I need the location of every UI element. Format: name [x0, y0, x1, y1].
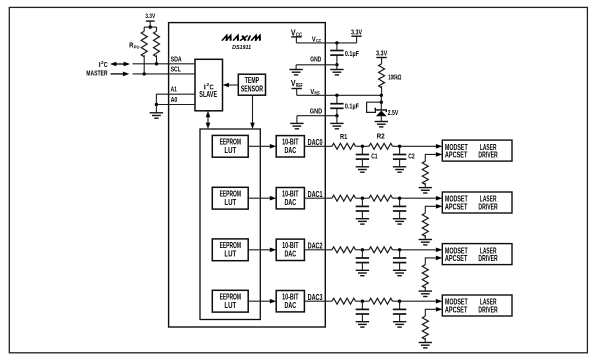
junction C1 node row 4 [361, 300, 364, 303]
capacitor C2 row 4 [399, 301, 401, 309]
wire VCC cap to ground node [336, 55, 338, 65]
wire SDA [133, 63, 196, 65]
LASER DRIVER block 4 [442, 295, 512, 316]
svg-text:DAC: DAC [284, 198, 296, 207]
wire C1 to ground row 3 [361, 263, 363, 271]
wire VCC pin [296, 42, 356, 44]
LASER DRIVER block 2 [442, 192, 512, 213]
wire A1 [156, 94, 195, 104]
wire RPU left to SCL [143, 55, 145, 74]
resistor R1 row 3 [332, 247, 356, 253]
ground under C1 row 2 [356, 219, 369, 224]
wire TEMP SENSOR to I2C SLAVE [228, 84, 238, 86]
wire A0 to ground [155, 105, 157, 113]
ground under C1 row 1 [356, 167, 369, 172]
arrow into MODSET row 3 [436, 248, 442, 253]
svg-text:DRIVER: DRIVER [478, 150, 497, 160]
svg-text:LUT: LUT [224, 301, 236, 310]
LASER DRIVER block 1 [442, 140, 512, 161]
bidirectional wire I2C SLAVE to EEPROM LUT block [207, 116, 209, 123]
junction C2 node row 4 [398, 300, 401, 303]
wire R2 to C2 node row 2 [393, 197, 437, 199]
svg-text:APCSET: APCSET [445, 253, 468, 263]
svg-text:DRIVER: DRIVER [478, 305, 497, 315]
svg-text:GND: GND [310, 106, 323, 115]
wire R2 to C2 node row 1 [393, 145, 437, 147]
svg-text:2.5V: 2.5V [388, 108, 399, 117]
wire DAC3 output [304, 300, 332, 302]
svg-text:LUT: LUT [224, 146, 236, 155]
resistor APCSET row 1 [422, 161, 428, 184]
ground under C1 row 4 [356, 322, 369, 327]
EEPROM LUT block 3 [212, 239, 248, 261]
junction shunt reference top [380, 101, 383, 104]
junction RPU-SCL [143, 72, 146, 75]
junction VREF gnd node [335, 114, 338, 117]
svg-text:SDA: SDA [171, 55, 182, 64]
VREF internal terminal [292, 88, 302, 90]
resistor APCSET row 2 [422, 213, 428, 236]
wire RPU split [144, 26, 156, 28]
svg-text:3.3V: 3.3V [145, 13, 156, 20]
wire C2 to ground row 4 [399, 314, 401, 322]
svg-text:MASTER: MASTER [86, 69, 108, 78]
wire DAC0 output [304, 145, 332, 147]
resistor R2 row 2 [369, 195, 393, 201]
ground GND pin upper [289, 70, 302, 75]
wire EEPROM LUT to DAC 1 [248, 145, 271, 147]
svg-text:DAC1: DAC1 [308, 190, 323, 199]
wire GND pin lower [297, 115, 337, 117]
svg-text:LUT: LUT [224, 249, 236, 258]
capacitor C2 row 1 [399, 146, 401, 154]
wire EEPROM LUT to DAC 3 [248, 249, 271, 251]
ground APCSET row 3 [419, 291, 432, 296]
resistor RPU (SDA pullup) [154, 31, 160, 57]
wire 3.3V to 100k [381, 58, 383, 64]
svg-text:APCSET: APCSET [445, 202, 468, 212]
wire EEPROM LUT to DAC 4 [248, 300, 271, 302]
EEPROM LUT block 1 [212, 135, 248, 157]
wire RPU right to SDA [156, 55, 158, 64]
svg-text:R2: R2 [377, 133, 385, 140]
svg-text:DAC: DAC [284, 301, 296, 310]
wire APCSET resistor to ground row 4 [424, 338, 426, 343]
junction C1 node row 3 [361, 248, 364, 251]
svg-text:DRIVER: DRIVER [478, 202, 497, 212]
wire APCSET row 1 [425, 154, 436, 161]
EEPROM LUT block 4 [212, 290, 248, 312]
resistor APCSET row 3 [422, 265, 428, 288]
ground APCSET row 4 [419, 343, 432, 348]
svg-text:DAC: DAC [284, 249, 296, 258]
zener diode 2.5V reference [375, 108, 386, 112]
junction RPU-SDA [155, 62, 158, 65]
svg-text:0.1µF: 0.1µF [345, 49, 359, 58]
svg-text:DAC0: DAC0 [308, 138, 323, 147]
wire A0 [156, 104, 195, 106]
svg-text:APCSET: APCSET [445, 305, 468, 315]
wire R1 to C1 node row 2 [356, 197, 370, 199]
wire VREF node to shunt reference [380, 95, 382, 102]
wire APCSET resistor to ground row 3 [424, 287, 426, 292]
svg-text:DRIVER: DRIVER [478, 253, 497, 263]
resistor APCSET row 4 [422, 316, 428, 339]
junction C2 node row 2 [398, 197, 401, 200]
capacitor 0.1uF at VREF [336, 95, 338, 103]
wire to RPU right [156, 27, 158, 31]
bidirectional arrow I2C MASTER SDA [116, 63, 125, 65]
capacitor 0.1uF at VCC [336, 43, 338, 51]
capacitor C1 row 4 [361, 301, 363, 309]
arrow into MODSET row 1 [436, 144, 442, 149]
wire C1 to ground row 4 [361, 314, 363, 322]
wire TEMP SENSOR to EEPROM LUT block [252, 95, 254, 123]
ground under C2 row 1 [393, 167, 406, 172]
svg-text:GND: GND [310, 54, 321, 63]
MAXIM logo [222, 36, 262, 41]
svg-text:C: C [104, 60, 108, 69]
resistor 100k [379, 64, 385, 88]
wire 3.3V stem [149, 21, 151, 27]
svg-text:R1: R1 [340, 134, 347, 141]
wire APCSET row 3 [425, 258, 436, 265]
arrow into MODSET row 4 [436, 299, 442, 304]
10-BIT DAC block 1 [276, 136, 304, 157]
junction VCC cap node [335, 41, 338, 44]
svg-text:DAC3: DAC3 [308, 293, 323, 302]
junction C1 node row 1 [361, 145, 364, 148]
wire APCSET row 2 [425, 206, 436, 213]
wire R2 to C2 node row 3 [393, 249, 437, 251]
resistor R2 row 3 [369, 247, 393, 253]
svg-text:100kΩ: 100kΩ [388, 72, 401, 81]
junction C2 node row 1 [398, 145, 401, 148]
wire DAC1 output [304, 197, 332, 199]
EEPROM LUT container block [200, 129, 260, 320]
wire APCSET resistor to ground row 2 [424, 235, 426, 240]
ground for A0/A1 [150, 113, 163, 118]
wire SCL [133, 73, 196, 75]
wire C2 to ground row 3 [399, 263, 401, 271]
svg-text:3.3V: 3.3V [351, 28, 362, 37]
junction A0-A1 tie [155, 103, 158, 106]
ground GND pin lower [290, 123, 303, 128]
capacitor C1 row 2 [361, 198, 363, 206]
wire C1 to ground row 2 [361, 211, 363, 219]
ground APCSET row 1 [419, 188, 432, 193]
ground under VCC cap [336, 65, 338, 70]
wire DAC2 output [304, 249, 332, 251]
I2C SLAVE block [195, 59, 223, 111]
EEPROM LUT block 2 [212, 187, 248, 209]
wire R1 to C1 node row 1 [356, 145, 370, 147]
10-BIT DAC block 3 [276, 239, 304, 260]
resistor R2 row 4 [369, 298, 393, 304]
ground under VREF cap [336, 116, 338, 124]
junction VREF cap node [335, 94, 338, 97]
svg-text:APCSET: APCSET [445, 150, 468, 160]
ground under zener [375, 122, 388, 127]
svg-text:SENSOR: SENSOR [241, 84, 263, 93]
junction VCC gnd node [335, 63, 338, 66]
10-BIT DAC block 2 [276, 188, 304, 209]
capacitor C2 row 3 [399, 250, 401, 258]
wire VREF cap to ground node [336, 108, 338, 115]
wire C2 to ground row 1 [399, 159, 401, 167]
wire R2 to C2 node row 4 [393, 300, 437, 302]
VCC internal terminal [291, 36, 301, 38]
ground under C2 row 4 [393, 322, 406, 327]
junction 3.3V split [149, 25, 152, 28]
wire to RPU left [143, 27, 145, 31]
wire GND pin upper [296, 64, 337, 66]
svg-text:PU: PU [134, 45, 140, 50]
wire R1 to C1 node row 4 [356, 300, 370, 302]
svg-text:SLAVE: SLAVE [199, 89, 217, 99]
arrow I2C MASTER SCL [111, 73, 124, 75]
10-BIT DAC block 4 [276, 291, 304, 312]
svg-text:DS1911: DS1911 [232, 45, 251, 51]
wire GND stem lower [296, 116, 298, 124]
wire zener to ground [380, 116, 382, 121]
wire 100k to VREF node [381, 86, 383, 95]
DS1911 chip outline U1 [169, 23, 326, 327]
wire EEPROM LUT to DAC 2 [248, 197, 271, 199]
junction 100k VREF [380, 94, 383, 97]
wire C1 to ground row 1 [361, 159, 363, 167]
arrow into MODSET row 2 [436, 196, 442, 201]
capacitor C2 row 2 [399, 198, 401, 206]
wire APCSET resistor to ground row 1 [424, 183, 426, 188]
svg-text:SCL: SCL [171, 64, 182, 73]
resistor RPU (SCL pullup) [141, 31, 147, 57]
svg-text:C1: C1 [371, 154, 377, 161]
wire R1 to C1 node row 3 [356, 249, 370, 251]
svg-text:LUT: LUT [224, 198, 236, 207]
capacitor C1 row 3 [361, 250, 363, 258]
resistor R1 row 2 [332, 195, 356, 201]
ground under C2 row 2 [393, 219, 406, 224]
capacitor C1 row 1 [361, 146, 363, 154]
svg-text:C2: C2 [408, 153, 414, 160]
shunt reference feedback loop [367, 102, 382, 112]
junction C1 node row 2 [361, 197, 364, 200]
resistor R1 row 4 [332, 298, 356, 304]
wire C2 to ground row 2 [399, 211, 401, 219]
junction C2 node row 3 [398, 248, 401, 251]
svg-text:DAC: DAC [284, 146, 296, 155]
svg-text:A0: A0 [171, 95, 178, 104]
svg-text:0.1µF: 0.1µF [345, 101, 359, 110]
resistor R2 row 1 [369, 143, 393, 149]
svg-text:3.3V: 3.3V [376, 49, 387, 58]
wire APCSET row 4 [425, 309, 436, 316]
TEMP SENSOR block [238, 74, 265, 95]
resistor R1 row 1 [332, 143, 356, 149]
ground under C2 row 3 [393, 270, 406, 275]
ground under C1 row 3 [356, 270, 369, 275]
wire GND stem upper [295, 65, 297, 70]
svg-text:DAC2: DAC2 [308, 241, 323, 250]
LASER DRIVER block 3 [442, 244, 512, 265]
ground APCSET row 2 [419, 240, 432, 245]
wire VREF pin [297, 94, 382, 96]
svg-text:A1: A1 [171, 85, 177, 94]
